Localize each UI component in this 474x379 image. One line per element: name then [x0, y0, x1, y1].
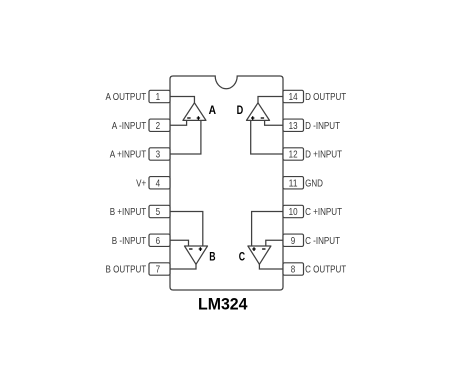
IC body U1 (LM324 DIP-14 outline with notch): [170, 76, 283, 290]
svg-text:A -INPUT: A -INPUT: [112, 120, 147, 132]
svg-text:V+: V+: [136, 177, 146, 189]
op-amp U1B triangle: [185, 246, 208, 264]
wire pin6 to op-amp B inverting input: [170, 240, 189, 246]
pin 10 box: [283, 205, 304, 218]
svg-text:4: 4: [156, 177, 161, 189]
op-amp U1C triangle: [248, 246, 271, 264]
wire pin1 to op-amp A output: [170, 97, 194, 104]
svg-text:11: 11: [289, 177, 298, 189]
svg-text:B +INPUT: B +INPUT: [110, 206, 147, 218]
svg-text:9: 9: [291, 235, 296, 247]
wire pin9 to op-amp C inverting input: [266, 240, 283, 246]
svg-text:8: 8: [291, 264, 296, 276]
svg-text:C: C: [239, 251, 246, 264]
pin 13 box: [283, 119, 304, 132]
svg-text:LM324: LM324: [198, 295, 248, 313]
pin 12 box: [283, 148, 304, 161]
wire pin12 to op-amp D non-inverting input: [251, 120, 283, 154]
svg-text:5: 5: [156, 206, 161, 218]
svg-text:GND: GND: [305, 177, 323, 189]
svg-text:10: 10: [289, 206, 298, 218]
pin 11 box: [283, 177, 304, 190]
svg-text:13: 13: [289, 120, 298, 132]
pin 7 box: [149, 263, 170, 276]
svg-text:B OUTPUT: B OUTPUT: [106, 264, 147, 276]
svg-text:D OUTPUT: D OUTPUT: [305, 91, 347, 103]
svg-text:B: B: [209, 251, 215, 264]
wire pin2 to op-amp A inverting input: [170, 120, 187, 125]
pin 1 box: [149, 90, 170, 103]
pin 9 box: [283, 234, 304, 247]
svg-text:7: 7: [156, 264, 161, 276]
pin 4 box: [149, 177, 170, 190]
wire pin13 to op-amp D inverting input: [265, 120, 283, 125]
wire pin8 to op-amp C output: [259, 264, 283, 269]
svg-text:A +INPUT: A +INPUT: [110, 149, 147, 161]
pin 8 box: [283, 263, 304, 276]
svg-text:A OUTPUT: A OUTPUT: [106, 91, 147, 103]
svg-text:14: 14: [289, 91, 298, 103]
svg-text:D: D: [237, 104, 244, 117]
pin 14 box: [283, 90, 304, 103]
op-amp U1D triangle: [247, 103, 270, 121]
svg-text:A: A: [209, 104, 217, 117]
wire pin10 to op-amp C non-inverting input: [252, 212, 283, 247]
op-amp U1A triangle: [183, 103, 206, 121]
wire pin14 to op-amp D output: [258, 97, 283, 104]
svg-text:C OUTPUT: C OUTPUT: [305, 264, 347, 276]
svg-text:6: 6: [156, 235, 161, 247]
svg-text:2: 2: [156, 120, 161, 132]
wire pin5 to op-amp B non-inverting input: [170, 212, 203, 247]
svg-text:3: 3: [156, 149, 161, 161]
svg-text:B -INPUT: B -INPUT: [112, 235, 147, 247]
pin 6 box: [149, 234, 170, 247]
wire pin3 to op-amp A non-inverting input: [170, 120, 201, 154]
wire pin7 to op-amp B output: [170, 264, 196, 269]
svg-text:D -INPUT: D -INPUT: [305, 120, 340, 132]
svg-text:1: 1: [156, 91, 161, 103]
pin 2 box: [149, 119, 170, 132]
pin 5 box: [149, 205, 170, 218]
svg-text:D +INPUT: D +INPUT: [305, 149, 342, 161]
svg-text:C -INPUT: C -INPUT: [305, 235, 340, 247]
svg-text:C +INPUT: C +INPUT: [305, 206, 342, 218]
pin 3 box: [149, 148, 170, 161]
svg-text:12: 12: [289, 149, 298, 161]
